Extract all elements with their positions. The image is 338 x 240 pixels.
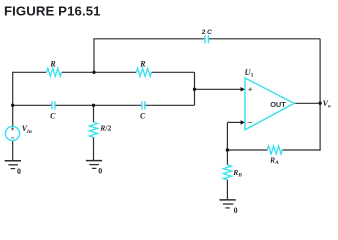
junction dot: T output node	[193, 88, 196, 91]
wire: noninverting input lead	[195, 88, 242, 90]
svg-text:C: C	[140, 111, 146, 120]
wire: top wire right of 2C cap	[209, 38, 320, 40]
svg-text:C: C	[50, 111, 56, 120]
svg-text:RB: RB	[232, 168, 242, 179]
capacitor C (right, C2)	[142, 101, 145, 109]
svg-text:R/2: R/2	[99, 124, 111, 133]
ground (RB)	[219, 200, 235, 208]
op-amp U1 triangle	[245, 78, 294, 130]
resistor RB (vertical)	[223, 165, 231, 180]
ground (R/2)	[86, 161, 102, 169]
junction dot: C row / R-half branch	[92, 104, 95, 107]
capacitor 2C plates	[205, 35, 208, 43]
junction dot: output Vo node	[318, 102, 321, 105]
resistor R (right, R2)	[136, 68, 151, 76]
svg-text:R: R	[49, 60, 56, 69]
wire: R row middle segment	[62, 71, 137, 73]
wire: R row right segment	[151, 71, 194, 73]
wire: R/2 branch top lead	[93, 105, 95, 122]
wire: RB top lead	[226, 150, 228, 165]
svg-text:0: 0	[17, 167, 21, 176]
resistor R (left, R1)	[47, 68, 62, 76]
svg-text:Vin: Vin	[22, 124, 32, 135]
svg-text:R: R	[139, 60, 146, 69]
source Vin circle	[5, 126, 19, 140]
junction dot: inverting node	[226, 148, 229, 151]
wire: left vertical from R row to Vin source	[12, 72, 14, 126]
wire: R/2 branch bottom lead to ground	[93, 137, 95, 160]
wire: inverting node vertical	[226, 122, 228, 150]
wire: C row seg1	[13, 104, 52, 106]
arrowhead into - input	[241, 120, 245, 125]
wire: RB bottom lead to ground	[226, 180, 228, 200]
junction dot: Vin / C row	[11, 104, 14, 107]
svg-text:FIGURE P16.51: FIGURE P16.51	[4, 4, 101, 19]
wire: op-amp output lead	[294, 102, 320, 104]
svg-text:OUT: OUT	[270, 100, 286, 109]
junction dot: R row / 2C branch	[92, 71, 95, 74]
svg-text:RA: RA	[269, 156, 279, 167]
wire: Vin lower lead to ground	[12, 141, 14, 161]
wire: R row left segment	[13, 71, 47, 73]
wire: C row seg3	[145, 104, 194, 106]
svg-text:2C: 2C	[202, 29, 212, 36]
svg-text:0: 0	[98, 166, 102, 175]
wire: right vertical from top wire down to RA row	[319, 39, 321, 150]
wire: 2C branch vertical up from R row	[93, 39, 95, 73]
op-amp - input mark	[248, 121, 252, 123]
capacitor C (left, C1)	[52, 101, 55, 109]
resistor RA	[267, 146, 282, 154]
wire: C row seg2	[56, 104, 142, 106]
op-amp + input mark	[248, 88, 252, 92]
svg-text:0: 0	[234, 206, 238, 215]
wire: right T-junction vertical (joins R row and C row)	[194, 72, 196, 105]
wire: RA row right segment	[282, 149, 320, 151]
svg-text:Vo: Vo	[323, 99, 331, 110]
arrowhead into + input	[241, 87, 245, 92]
wire: top wire left of 2C cap	[93, 38, 204, 40]
ground (Vin)	[5, 161, 21, 169]
source polarity marks	[11, 127, 14, 138]
svg-text:U1: U1	[245, 68, 254, 79]
resistor R/2 (vertical)	[89, 122, 97, 137]
wire: RA row left segment	[227, 149, 267, 151]
wire: inverting input lead	[227, 121, 241, 123]
